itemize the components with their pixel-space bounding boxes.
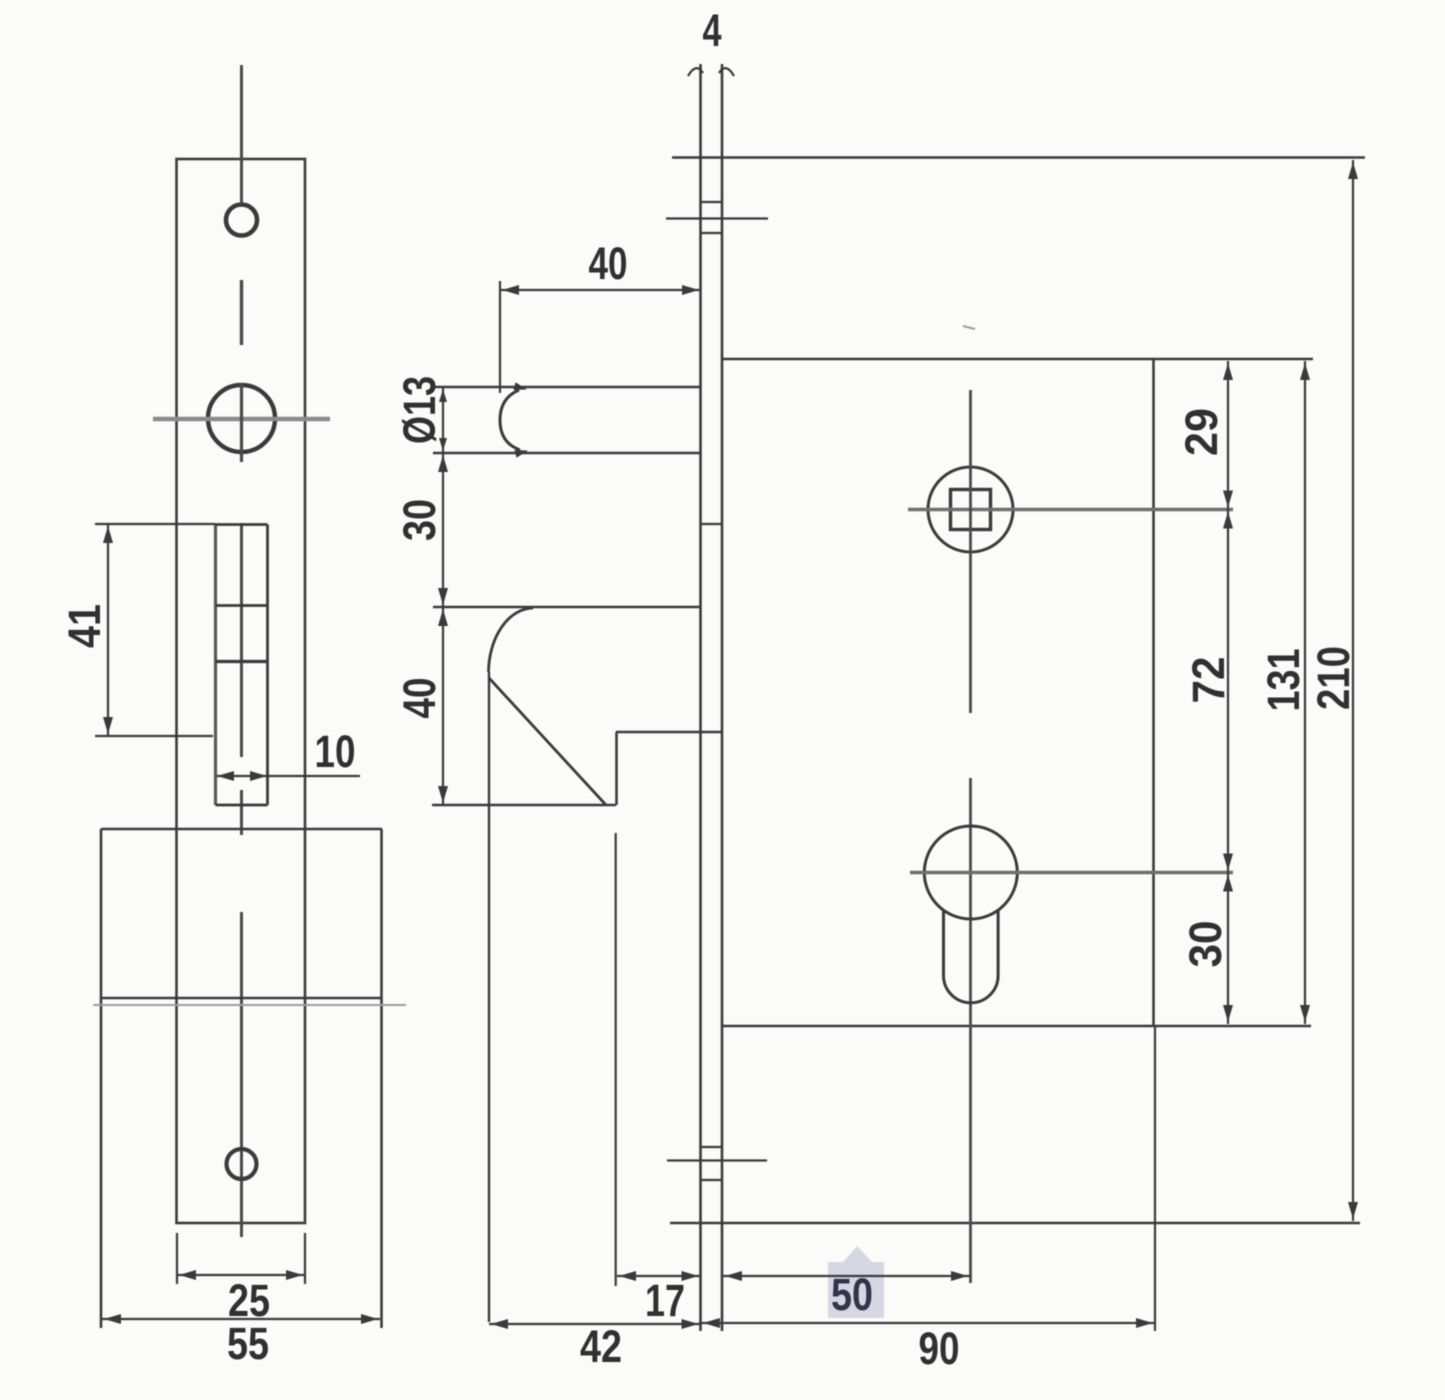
dimension 50 with selection highlight [828,1246,884,1318]
right view: lock case side [666,5,1365,1374]
euro cylinder profile [924,826,1017,919]
door bottom edge [670,1222,1360,1225]
deadbolt left face / 42-dim extension [488,672,490,1322]
dimension 40 top [499,281,501,393]
faceplate section right line [721,64,724,1331]
faceplate section left line [699,64,702,1331]
case division line [101,997,382,1000]
svg-text:42: 42 [580,1321,622,1372]
stray centerline dot [963,326,975,329]
bottom screw hole [227,1149,257,1179]
follower hole front [208,385,275,452]
spindle follower circle [928,467,1013,552]
latch bolt top edge [433,386,701,389]
svg-text:29: 29 [1176,408,1227,456]
svg-text:30: 30 [1180,921,1231,968]
left view: faceplate front [59,65,406,1369]
dimension 42 [489,1323,701,1325]
vertical centerline of faceplate [240,65,243,203]
spindle square hole [951,490,991,530]
deadbolt bottom edge [432,804,616,807]
dimension 210 [1352,160,1354,1221]
svg-text:41: 41 [59,604,110,648]
svg-text:90: 90 [919,1323,960,1374]
faceplate joint mark [701,523,723,525]
cylinder horizontal centerline [910,871,1233,874]
spindle horizontal centerline [908,508,1233,512]
svg-text:72: 72 [1183,657,1234,704]
latch bolt nose curve [500,390,520,450]
latch bolt bottom edge [433,452,701,455]
dimension 41 [95,523,215,525]
svg-text:10: 10 [315,726,356,777]
dimension 30 middle [442,453,444,607]
svg-text:210: 210 [1308,646,1359,710]
faceplate front outline [177,159,306,1223]
deadbolt top edge [433,606,701,609]
deadbolt step [615,732,618,805]
vertical centerline [969,390,972,713]
17-dim extension line [615,833,617,1286]
middle view: latch and deadbolt profile [394,238,723,1372]
dimension Ø13 [442,387,444,453]
top screw hole [226,205,257,236]
dimension 25 [176,1233,178,1284]
dimension 4 (faceplate thickness) [688,68,703,76]
lock case outline [722,358,1313,361]
dimension 17 [617,1275,701,1277]
dimension 10 [217,775,360,777]
dimension 55 [102,1318,380,1320]
svg-text:4: 4 [703,5,722,56]
dimension chain 29/72/30 [1227,361,1229,1024]
deadbolt nose arc [489,608,534,672]
faceplate break marks top [701,201,723,203]
svg-text:17: 17 [645,1275,685,1326]
svg-text:40: 40 [394,678,445,719]
svg-text:55: 55 [227,1318,269,1369]
dimension 131 [1304,361,1306,1024]
latch cutout box [214,525,217,806]
latch cutout inner line 2 [216,660,268,663]
faceplate break marks bottom [701,1146,723,1148]
door top edge [672,156,1365,159]
svg-text:131: 131 [1258,649,1309,712]
follower horizontal centerline [153,417,330,421]
svg-text:50: 50 [831,1269,873,1320]
faint shadow line [93,1004,406,1006]
lock case front (wide) [101,828,382,831]
90-dim extension line [1154,1026,1156,1331]
svg-text:Ø13: Ø13 [394,376,445,444]
svg-text:40: 40 [589,238,628,289]
dimension 40 deadbolt [442,607,444,805]
svg-text:30: 30 [394,499,445,541]
deadbolt diagonal [489,678,606,805]
latch cutout inner line 1 [216,604,268,607]
